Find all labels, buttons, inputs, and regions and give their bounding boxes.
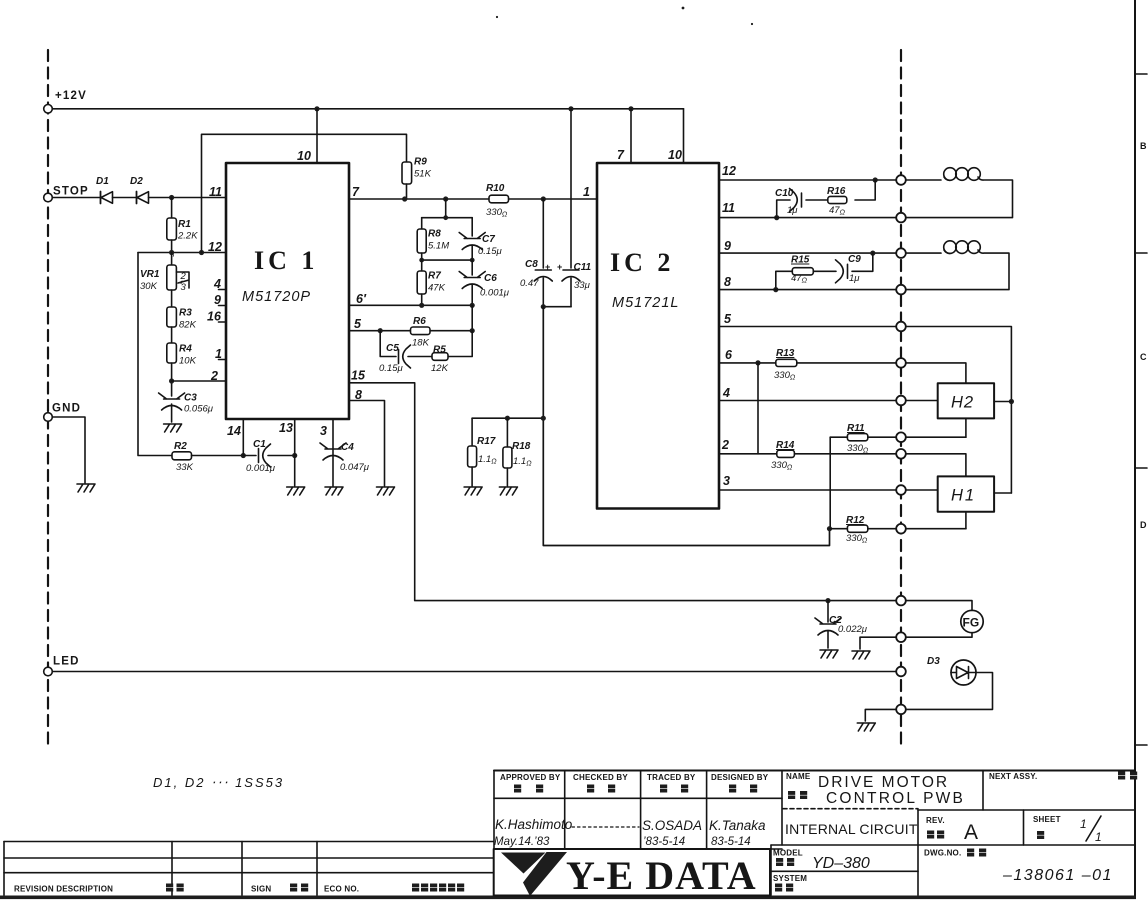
svg-text:6′: 6′ — [356, 292, 367, 306]
capacitor C1 — [246, 439, 295, 474]
wire R11 line — [830, 436, 966, 438]
svg-text:R1: R1 — [178, 219, 191, 230]
svg-text:9: 9 — [724, 239, 731, 253]
svg-text:5.1M: 5.1M — [428, 241, 449, 252]
svg-text:11: 11 — [209, 185, 222, 199]
capacitor C10 — [775, 188, 802, 216]
wire D1 to D2 — [113, 197, 137, 199]
resistor R14 — [771, 440, 795, 472]
svg-text:CHECKED BY: CHECKED BY — [573, 773, 628, 782]
wire IC1 pin5 R6 line — [349, 330, 472, 332]
svg-text:R5: R5 — [433, 345, 446, 356]
svg-text:S.OSADA: S.OSADA — [642, 818, 702, 833]
svg-text:–138061 –01: –138061 –01 — [1002, 867, 1113, 884]
svg-text:C10: C10 — [775, 188, 794, 199]
resistor R5 — [431, 345, 449, 375]
wire branch pin6 node down to pin2 line — [757, 363, 759, 454]
resistor R16 — [827, 186, 847, 217]
svg-text:H2: H2 — [951, 394, 974, 412]
svg-text:MODEL: MODEL — [773, 849, 803, 858]
svg-text:R9: R9 — [414, 157, 427, 168]
svg-text:10: 10 — [668, 148, 682, 162]
svg-text:R13: R13 — [776, 348, 795, 359]
svg-text:C11: C11 — [574, 262, 592, 273]
svg-text:1: 1 — [583, 185, 590, 199]
node STOP terminal — [44, 186, 89, 202]
svg-text:IC 1: IC 1 — [254, 246, 318, 275]
diode D1 — [96, 176, 113, 204]
svg-text:11: 11 — [722, 201, 735, 215]
svg-text:R12: R12 — [846, 515, 865, 526]
svg-text:1: 1 — [1080, 817, 1087, 831]
svg-text:82K: 82K — [179, 320, 197, 331]
wire R17 R18 bar — [472, 417, 543, 419]
svg-text:+: + — [545, 262, 550, 272]
svg-text:47K: 47K — [428, 283, 446, 294]
wire IC1 pin7 to IC2 pin1 — [349, 198, 597, 200]
svg-text:33μ: 33μ — [574, 280, 591, 291]
svg-text:GND: GND — [52, 403, 81, 415]
svg-text:9: 9 — [214, 293, 221, 307]
wire FG return to ground stub — [860, 633, 972, 649]
svg-text:R3: R3 — [179, 308, 192, 319]
svg-text:APPROVED BY: APPROVED BY — [500, 773, 561, 782]
node LED terminal — [44, 656, 80, 676]
svg-text:C6: C6 — [484, 273, 497, 284]
wire R11 left branch down to R12 node — [829, 437, 831, 529]
svg-text:R2: R2 — [174, 441, 187, 452]
connector FG — [961, 610, 983, 632]
ground below D3 return — [857, 723, 875, 731]
svg-text:May.14.’83: May.14.’83 — [494, 836, 550, 848]
wire H2 bottom lead — [965, 418, 967, 437]
ground below R17 — [464, 487, 482, 495]
junction dot pin12 line — [873, 177, 878, 182]
wire +12V rail — [52, 108, 683, 110]
capacitor C6 — [459, 260, 510, 305]
svg-text:’83-5-14: ’83-5-14 — [643, 836, 685, 848]
wire GND to ground — [52, 417, 85, 483]
svg-text:REV.: REV. — [926, 816, 945, 825]
resistor R6 — [411, 316, 431, 349]
svg-text:R4: R4 — [179, 344, 192, 355]
wire snubber R15 C9 — [776, 253, 873, 290]
capacitor C4 — [320, 442, 370, 473]
junction dots mid bar — [419, 258, 474, 263]
svg-text:R16: R16 — [827, 186, 846, 197]
potentiometer VR1 — [140, 253, 189, 294]
wire C6C7 branch down to R6 line — [471, 305, 473, 330]
svg-text:5: 5 — [354, 317, 362, 331]
block H2 — [938, 383, 994, 418]
junction dot R8C7 top — [443, 215, 448, 220]
svg-text:DWG.NO.: DWG.NO. — [924, 849, 961, 858]
svg-text:R8: R8 — [428, 229, 441, 240]
svg-text:R17: R17 — [477, 436, 496, 447]
wire IC1 pin8 to ground — [349, 401, 385, 487]
svg-text:0.15μ: 0.15μ — [478, 246, 502, 257]
svg-text:D: D — [1140, 520, 1147, 530]
wire IC2 pin11 line — [719, 217, 897, 219]
svg-text:R7: R7 — [428, 271, 441, 282]
wire IC2 pin2 R14 line to H1 top — [719, 454, 966, 477]
capacitor C9 — [836, 254, 862, 284]
IC1 right pin numbers 7,6,5,15,8 — [351, 185, 367, 402]
svg-text:C8: C8 — [525, 259, 538, 270]
resistor R9 — [402, 157, 432, 200]
junction dots on +12V rail — [314, 106, 633, 111]
IC2 top pin 7 — [617, 109, 631, 163]
svg-text:10K: 10K — [179, 356, 197, 367]
svg-text:D3: D3 — [927, 656, 940, 667]
svg-text:4: 4 — [722, 386, 730, 400]
capacitor C8 electrolytic — [520, 199, 552, 307]
svg-text:+12V: +12V — [55, 90, 87, 102]
svg-text:R10: R10 — [486, 183, 505, 194]
ground below pin13 — [287, 487, 305, 495]
resistor R13 — [774, 348, 797, 382]
IC2 right pin numbers 12,11,9,8,5,6,4,2,3 — [721, 164, 736, 488]
connector boundary dashed line right — [900, 50, 902, 749]
wire C8 C11 bottom bar — [543, 306, 571, 308]
resistor R2 — [172, 441, 243, 473]
svg-text:M51720P: M51720P — [242, 289, 311, 305]
junction dot R2 line at pin14 — [241, 453, 246, 458]
capacitor C3 — [159, 393, 214, 423]
resistor R17 — [468, 418, 498, 486]
junction dot C8 bottom — [541, 304, 546, 309]
resistor R7 — [417, 260, 445, 305]
connector circles on boundary — [896, 175, 906, 714]
capacitor C2 — [815, 601, 868, 648]
svg-text:+: + — [557, 262, 562, 272]
junction dot FG line at C2 — [825, 598, 830, 603]
svg-text:12K: 12K — [431, 363, 449, 374]
svg-text:DRIVE MOTOR: DRIVE MOTOR — [818, 774, 949, 791]
wire STOP to D1 — [52, 197, 100, 199]
junction dot H2 right — [1009, 399, 1014, 404]
svg-text:2: 2 — [180, 271, 187, 282]
svg-text:H1: H1 — [951, 487, 976, 505]
wire IC2 pin3 line to H1 — [719, 489, 938, 491]
wire IC2 pin9 line — [719, 252, 897, 254]
ground below FG return — [852, 651, 870, 659]
junction dots pin6 line — [419, 303, 475, 308]
svg-text:SYSTEM: SYSTEM — [773, 874, 807, 883]
svg-text:STOP: STOP — [53, 186, 89, 198]
ground below C2 — [820, 650, 838, 658]
IC1 top pin 10 — [297, 109, 317, 163]
IC1 left pin numbers 11,12,4,9,16,1,2 — [207, 185, 222, 383]
svg-text:C3: C3 — [184, 393, 197, 404]
svg-text:ECO NO.: ECO NO. — [324, 885, 359, 894]
svg-text:18K: 18K — [412, 338, 430, 349]
svg-text:2: 2 — [210, 369, 218, 383]
svg-text:1: 1 — [1095, 830, 1102, 844]
svg-text:0.047μ: 0.047μ — [340, 462, 370, 473]
IC IC2 M51721L — [597, 163, 719, 509]
svg-text:10: 10 — [297, 149, 311, 163]
wire IC2 pin5 line to H right sides — [719, 327, 1011, 494]
wire D2 to IC1 pin 11 — [149, 197, 227, 199]
IC1 bottom pin numbers 14,13,3 — [227, 421, 327, 438]
resistor R4 — [167, 327, 197, 396]
ground below pin8 wire — [377, 487, 395, 495]
svg-text:FG: FG — [963, 616, 980, 630]
svg-text:C1: C1 — [253, 439, 266, 450]
capacitor C11 electrolytic — [557, 109, 592, 307]
svg-text:D1: D1 — [96, 176, 109, 187]
svg-text:0.001μ: 0.001μ — [480, 288, 510, 299]
svg-text:TRACED BY: TRACED BY — [647, 773, 696, 782]
svg-text:1μ: 1μ — [787, 205, 798, 216]
svg-text:YD–380: YD–380 — [812, 855, 870, 872]
node +12V terminal — [44, 90, 87, 113]
svg-text:CONTROL PWB: CONTROL PWB — [826, 790, 965, 807]
junction dot R13 line — [755, 360, 760, 365]
ground below R18 — [499, 487, 517, 495]
svg-text:C7: C7 — [482, 234, 495, 245]
wire FG stub to connector — [905, 601, 972, 611]
svg-text:3: 3 — [320, 424, 327, 438]
svg-text:VR1: VR1 — [140, 269, 160, 280]
wire pin 12 node — [138, 252, 226, 254]
junction dot pin8 line — [773, 287, 778, 292]
junction dot pin 2 node — [169, 378, 174, 383]
wire VR1 bracket to R2 — [138, 253, 172, 456]
diode D3 LED in connector — [927, 656, 976, 685]
svg-text:2: 2 — [721, 438, 729, 452]
svg-text:C: C — [1140, 352, 1147, 362]
svg-text:D2: D2 — [130, 176, 143, 187]
wire H1 bottom lead — [965, 512, 967, 529]
svg-text:R15: R15 — [791, 255, 810, 266]
svg-text:2.2K: 2.2K — [177, 231, 198, 242]
junction dot R2 line at pin13 — [292, 453, 297, 458]
svg-text:INTERNAL CIRCUIT: INTERNAL CIRCUIT — [785, 821, 918, 837]
svg-text:IC 2: IC 2 — [610, 248, 674, 277]
svg-text:R18: R18 — [512, 441, 531, 452]
wire R12 line — [830, 528, 966, 530]
wire motor common down from C8 — [543, 307, 829, 546]
svg-text:A: A — [964, 821, 978, 844]
svg-text:SHEET: SHEET — [1033, 815, 1061, 824]
svg-text:LED: LED — [53, 656, 80, 668]
IC2 top pin 10 — [668, 109, 684, 163]
svg-text:6: 6 — [725, 348, 733, 362]
svg-text:R6: R6 — [413, 316, 426, 327]
svg-text:4: 4 — [213, 277, 221, 291]
svg-text:K.Hashimoto: K.Hashimoto — [495, 817, 573, 832]
svg-text:Y-E DATA: Y-E DATA — [566, 853, 757, 898]
wire branch down to R8-C7 — [445, 199, 447, 218]
svg-text:7: 7 — [352, 185, 360, 199]
wire R8-C7 top bar — [422, 217, 473, 219]
wire IC2 pin4 line to H2 — [719, 400, 938, 402]
wire to IC1 pin 2 — [172, 380, 226, 382]
connector boundary dashed line left — [47, 50, 49, 746]
junction dots pin7 line — [402, 196, 546, 201]
svg-text:51K: 51K — [414, 169, 432, 180]
svg-text:16: 16 — [207, 310, 222, 324]
junction dot pin11 line — [774, 215, 779, 220]
IC1 pin ticks 4,9,16,1 — [219, 290, 227, 360]
svg-text:1μ: 1μ — [849, 273, 860, 284]
resistor R15 — [791, 255, 813, 285]
inductor motor coil L2 — [905, 241, 1009, 290]
junction dot R12 node — [827, 526, 832, 531]
svg-text:R14: R14 — [776, 440, 795, 451]
wire D3 loop return — [865, 673, 992, 722]
wire H1 right lead — [994, 492, 1011, 494]
block H1 — [938, 476, 994, 511]
resistor R12 — [846, 515, 868, 545]
wire IC1 pin6 line — [349, 304, 472, 306]
svg-text:12: 12 — [722, 164, 736, 178]
svg-text:1: 1 — [215, 347, 222, 361]
wire IC2 pin6 R13 line — [719, 363, 966, 383]
junction dot pin9 line — [870, 251, 875, 256]
IC IC1 M51720P — [226, 163, 349, 419]
wire IC2 pin8 line — [719, 289, 897, 291]
svg-text:7: 7 — [617, 148, 625, 162]
capacitor C7 — [459, 218, 502, 260]
svg-text:12: 12 — [208, 240, 222, 254]
resistor R8 — [417, 218, 449, 260]
svg-text:C4: C4 — [341, 442, 354, 453]
wire H2 right lead — [994, 401, 1011, 403]
svg-text:K.Tanaka: K.Tanaka — [709, 818, 766, 833]
svg-text:B: B — [1140, 141, 1147, 151]
svg-text:33K: 33K — [176, 462, 194, 473]
junction dot STOP line at R1 — [169, 195, 174, 200]
svg-text:NEXT ASSY.: NEXT ASSY. — [989, 772, 1037, 781]
svg-text:C5: C5 — [386, 343, 399, 354]
ground below GND terminal — [77, 484, 95, 492]
wire IC1 pin15 to FG line — [349, 383, 897, 601]
svg-text:0.47: 0.47 — [520, 278, 539, 289]
svg-text:14: 14 — [227, 424, 241, 438]
svg-text:M51721L: M51721L — [612, 295, 679, 311]
svg-text:DESIGNED BY: DESIGNED BY — [711, 773, 769, 782]
junction dots pin 12 node — [169, 250, 204, 255]
svg-text:0.001μ: 0.001μ — [246, 463, 276, 474]
svg-text:NAME: NAME — [786, 772, 811, 781]
wire IC1 pin14 down — [242, 419, 244, 456]
svg-text:R11: R11 — [847, 423, 865, 434]
svg-text:0.022μ: 0.022μ — [838, 624, 868, 635]
resistor R1 — [167, 198, 198, 253]
capacitor C5 — [379, 343, 411, 374]
svg-text:REVISION DESCRIPTION: REVISION DESCRIPTION — [14, 885, 113, 894]
svg-text:13: 13 — [279, 421, 293, 435]
junction dots R6 line — [378, 328, 475, 333]
junction dots R17R18 bar — [505, 416, 546, 421]
resistor R3 — [167, 290, 197, 331]
resistor R11 — [847, 423, 869, 455]
ground below C3 — [164, 424, 182, 432]
resistor R10 — [486, 183, 509, 219]
wire snubber C10 R16 — [777, 180, 876, 218]
svg-text:83-5-14: 83-5-14 — [711, 836, 751, 848]
wire IC1 pin13 to ground — [294, 419, 296, 486]
wire R8-R7 mid bar — [422, 259, 473, 261]
wire IC1 pin3 to ground — [332, 419, 334, 486]
svg-text:8: 8 — [724, 275, 731, 289]
svg-text:0.15μ: 0.15μ — [379, 363, 403, 374]
svg-text:D1, D2 ⋅⋅⋅ 1SS53: D1, D2 ⋅⋅⋅ 1SS53 — [153, 775, 284, 790]
wire C5 R5 loop — [380, 331, 472, 357]
wire IC2 pin12 line — [719, 179, 897, 181]
svg-text:C9: C9 — [848, 254, 861, 265]
wire R2 to C1 — [243, 455, 256, 457]
svg-text:0.056μ: 0.056μ — [184, 404, 214, 415]
svg-text:5: 5 — [724, 312, 732, 326]
wire branch up to R9 — [202, 134, 407, 252]
diode D2 — [130, 176, 149, 204]
node GND terminal — [44, 403, 81, 422]
svg-text:3: 3 — [723, 474, 730, 488]
wire LED line — [52, 671, 896, 673]
svg-text:SIGN: SIGN — [251, 885, 271, 894]
svg-text:30K: 30K — [140, 281, 158, 292]
ground below C4 — [325, 487, 343, 495]
resistor R18 — [503, 418, 532, 486]
svg-text:3: 3 — [181, 282, 187, 293]
inductor motor coil L1 — [905, 168, 1012, 218]
svg-text:15: 15 — [351, 369, 366, 383]
